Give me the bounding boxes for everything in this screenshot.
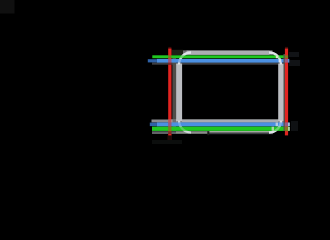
bottom edge right segment dark lower rows (209, 133, 273, 135)
white corner arc top-right (under layer) (269, 53, 281, 65)
white corner arc top-right (blend overlay) (269, 53, 281, 65)
white corner arc bottom-right (blend overlay) (269, 121, 281, 133)
tick mark on bottom edge (207, 131, 209, 135)
bottom edge light middle segment (176, 131, 209, 134)
light cap on green bottom stub (288, 127, 290, 131)
dark (hidden black) vertical line between left red line and rect left edge (172, 56, 176, 132)
crossing mix: right red x blue bottom (285, 122, 288, 126)
faint smudge row below bottom-left (152, 140, 182, 144)
white corner arc top-left (under layer) (179, 53, 191, 65)
white corner arc top-left (blend overlay) (179, 53, 191, 65)
hidden label smudge right of right red line, top row 1 (289, 52, 299, 57)
crossing mix: left red x blue bottom (168, 122, 172, 126)
red vertical guide line left top AA cap (168, 47, 171, 48)
dark (hidden black) vertical line between rect right edge and right red line (284, 54, 285, 131)
blue tangent line top (dark start cap) (148, 59, 157, 62)
crossing mix: left red x dark bottom (168, 131, 172, 134)
bottom edge right segment light top row (209, 131, 273, 133)
blue tangent line top (157, 59, 289, 63)
hidden label smudge top-left of rect (between red line and corner) (172, 50, 183, 55)
right edge fade continuation into corner (278, 121, 283, 125)
blue tangent line bottom (157, 122, 290, 126)
gray right edge of rounded rect (278, 64, 284, 122)
red vertical guide line right (285, 49, 288, 136)
left edge fade continuation into corner (176, 121, 181, 125)
green tangent line top (152, 55, 287, 58)
crossing mix: left red x green bottom (168, 127, 172, 132)
white corner arc bottom-left (blend overlay) (179, 121, 191, 133)
red vertical guide line right top AA cap (285, 47, 288, 48)
crossing mix: right red x blue top (285, 59, 288, 63)
light gray inner bottom line (left faint part) (152, 120, 177, 123)
TR arc bright notch over blue (279, 59, 282, 63)
hidden label smudge right of right red line, top row 2 (289, 60, 300, 66)
green tangent line bottom (152, 127, 290, 131)
BR arc bright notch over green (272, 127, 274, 131)
red vertical guide line left (168, 49, 171, 136)
white corner arc bottom-left (under layer) (179, 121, 191, 133)
BR arc bright notch over blue (276, 123, 278, 127)
faint dark square top-left (hidden logo) (0, 0, 15, 14)
gray top edge of rounded rect (183, 50, 273, 55)
white corner arc bottom-right (under layer) (269, 121, 281, 133)
gray left edge of rounded rect (176, 64, 182, 122)
light cap on blue bottom stub (288, 123, 290, 127)
crossing mix: right red x green top (285, 55, 288, 58)
light gray inner bottom line (170, 119, 284, 122)
TR arc bright notch over green (276, 55, 279, 58)
dark (hidden black) line below top blue line (152, 63, 281, 65)
crossing mix: left red x blue top (168, 59, 172, 63)
crossing mix: left red x green top (168, 55, 172, 58)
blue tangent line bottom (dark start cap) (150, 123, 157, 127)
top edge right tip fade (270, 50, 273, 55)
hidden label smudge right of right red line, bottom (291, 121, 298, 131)
crossing mix: left red x dark top (168, 63, 172, 65)
top edge left tip fade (183, 50, 187, 55)
crossing mix: right red x green bottom (285, 127, 288, 132)
hidden black vertical line crossing inner bottom band (172, 119, 176, 122)
crossing mix: left red x inner gray bottom (168, 119, 172, 122)
dark (hidden black) bottom edge of outer rounded rect, left segment (152, 131, 176, 134)
faint red tail below left red line (168, 135, 173, 141)
